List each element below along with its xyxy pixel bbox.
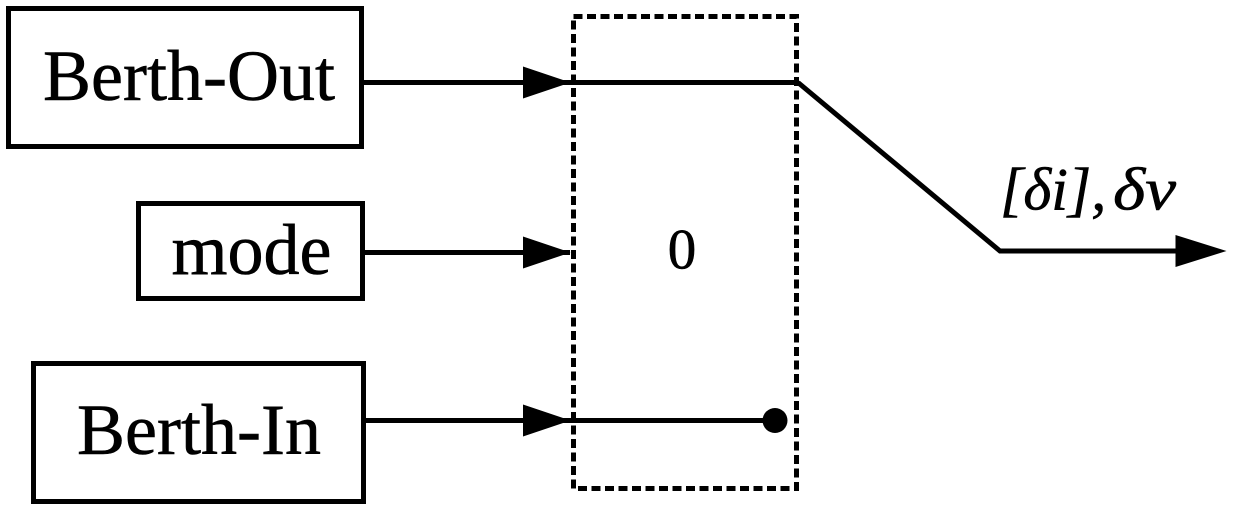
svg-text:Berth-Out: Berth-Out: [43, 36, 335, 116]
svg-text:0: 0: [668, 219, 697, 282]
svg-text:δv: δv: [1113, 157, 1176, 223]
svg-text:[δi],: [δi],: [1000, 157, 1106, 223]
svg-text:mode: mode: [172, 210, 332, 290]
svg-text:Berth-In: Berth-In: [77, 390, 321, 470]
